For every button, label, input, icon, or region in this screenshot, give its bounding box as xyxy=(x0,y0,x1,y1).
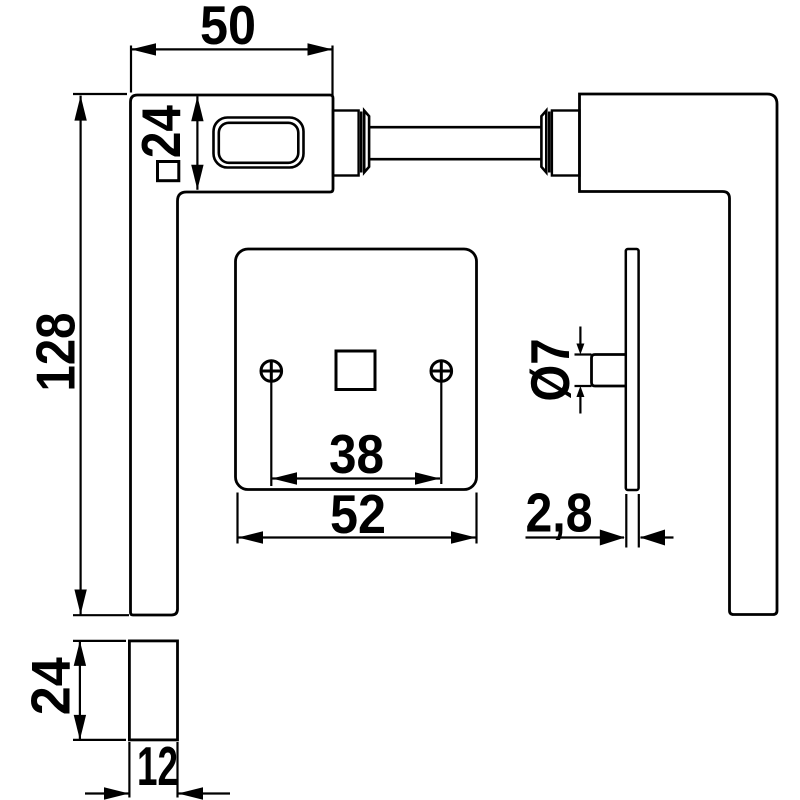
left handle window inner xyxy=(219,123,298,163)
dimension 2,8 xyxy=(526,494,674,548)
dimension diameter 7 xyxy=(575,327,592,414)
left handle outline xyxy=(131,95,334,615)
screw boss xyxy=(592,355,627,387)
left neck chamfer ring xyxy=(364,111,369,173)
left neck collar xyxy=(333,111,359,176)
svg-text:52: 52 xyxy=(330,484,386,545)
dimension 12 xyxy=(85,742,230,798)
dimension 128 xyxy=(73,94,129,615)
spindle xyxy=(369,127,541,159)
dimension 52 xyxy=(238,493,477,544)
svg-text:Ø7: Ø7 xyxy=(520,339,581,402)
dimension 38 xyxy=(271,383,441,487)
right neck ring line xyxy=(548,112,551,173)
left neck ring line xyxy=(360,112,363,173)
dimension 50 xyxy=(131,46,333,96)
svg-text:12: 12 xyxy=(137,736,178,797)
dimension square 24 xyxy=(196,96,198,190)
svg-text:24: 24 xyxy=(20,657,81,716)
handle cross-section xyxy=(129,641,177,740)
dimension 24 cross-section xyxy=(73,641,126,740)
square symbol xyxy=(158,162,179,181)
right neck chamfer ring xyxy=(541,111,546,173)
right screw xyxy=(431,361,452,382)
svg-text:128: 128 xyxy=(26,313,87,392)
svg-text:50: 50 xyxy=(200,0,256,56)
svg-text:2,8: 2,8 xyxy=(526,483,593,544)
right neck collar xyxy=(552,111,580,176)
rose plate front view xyxy=(236,249,477,490)
left handle window outer xyxy=(214,118,304,168)
svg-text:38: 38 xyxy=(329,424,384,485)
spindle square hole xyxy=(336,351,375,390)
svg-text:24: 24 xyxy=(131,105,192,159)
rose plate side view xyxy=(626,249,639,490)
right handle outline xyxy=(580,94,778,615)
left screw xyxy=(261,361,282,382)
